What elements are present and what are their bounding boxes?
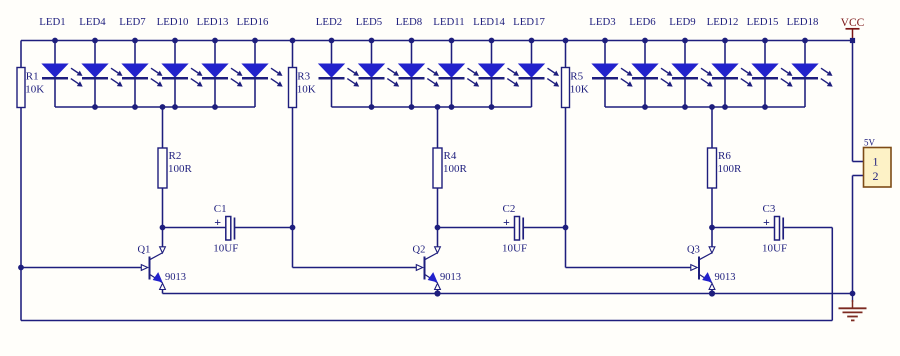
wire: R3 bottom to Q2 base xyxy=(293,107,417,268)
svg-text:Q2: Q2 xyxy=(413,245,426,256)
svg-text:10K: 10K xyxy=(25,84,44,96)
transistor Q2 9013 xyxy=(413,228,462,294)
svg-text:C2: C2 xyxy=(503,203,516,215)
svg-text:LED1: LED1 xyxy=(39,16,65,28)
LED7 xyxy=(119,16,162,110)
svg-text:C3: C3 xyxy=(763,203,776,215)
LED15 xyxy=(747,16,793,110)
capacitor C2 10UF xyxy=(438,203,569,255)
transistor Q3 9013 xyxy=(687,228,736,294)
svg-text:9013: 9013 xyxy=(715,272,736,283)
svg-text:LED18: LED18 xyxy=(787,16,819,28)
svg-text:5V: 5V xyxy=(864,138,876,148)
svg-text:+: + xyxy=(763,215,770,229)
LED17 xyxy=(513,16,559,107)
svg-text:LED14: LED14 xyxy=(473,16,505,28)
svg-text:R3: R3 xyxy=(297,71,310,83)
wire: LED group 2 cathode rail xyxy=(332,104,532,110)
wire: R1 bottom to Q1 base xyxy=(21,107,141,268)
svg-text:100R: 100R xyxy=(443,163,468,175)
wire: connector pin 2 to ground xyxy=(853,176,864,294)
svg-text:LED17: LED17 xyxy=(513,16,545,28)
LED18 xyxy=(787,16,833,107)
svg-text:LED2: LED2 xyxy=(316,16,342,28)
capacitor C3 10UF xyxy=(712,203,832,255)
connector JP 5V (pins 1,2) xyxy=(864,138,892,188)
svg-text:2: 2 xyxy=(873,169,879,183)
wire: LED group 3 cathode rail xyxy=(605,104,805,110)
svg-text:100R: 100R xyxy=(718,163,743,175)
svg-text:LED16: LED16 xyxy=(237,16,269,28)
LED4 xyxy=(79,16,122,110)
LED1 xyxy=(39,16,82,107)
svg-text:R1: R1 xyxy=(26,71,39,83)
svg-text:LED4: LED4 xyxy=(79,16,106,28)
resistor R2 100R xyxy=(158,107,193,228)
node: R4 / C2 / Q2 collector junction xyxy=(435,225,441,231)
svg-text:10UF: 10UF xyxy=(502,243,527,255)
LED8 xyxy=(396,16,439,110)
LED6 xyxy=(629,16,672,110)
svg-text:+: + xyxy=(503,215,510,229)
svg-text:R4: R4 xyxy=(444,150,457,162)
capacitor C1 10UF xyxy=(163,203,296,255)
svg-text:LED11: LED11 xyxy=(433,16,464,28)
svg-text:Q3: Q3 xyxy=(687,245,700,256)
svg-text:R5: R5 xyxy=(570,71,583,83)
LED16 xyxy=(237,16,283,107)
svg-text:LED15: LED15 xyxy=(747,16,779,28)
svg-text:1: 1 xyxy=(873,155,879,169)
LED14 xyxy=(473,16,519,110)
svg-text:10K: 10K xyxy=(297,84,316,96)
transistor Q1 9013 xyxy=(138,228,187,294)
resistor R5 10K xyxy=(562,38,589,108)
svg-text:R6: R6 xyxy=(718,150,731,162)
svg-text:9013: 9013 xyxy=(440,272,461,283)
svg-text:LED6: LED6 xyxy=(629,16,656,28)
LED11 xyxy=(433,16,479,110)
svg-text:9013: 9013 xyxy=(165,272,186,283)
LED9 xyxy=(669,16,712,110)
resistor R3 10K xyxy=(289,38,316,108)
svg-text:R2: R2 xyxy=(169,150,182,162)
ground symbol xyxy=(839,294,867,321)
svg-text:10UF: 10UF xyxy=(762,243,787,255)
svg-text:LED3: LED3 xyxy=(589,16,615,28)
svg-text:LED9: LED9 xyxy=(669,16,695,28)
svg-text:VCC: VCC xyxy=(841,17,865,29)
wire: VCC top rail xyxy=(21,40,853,42)
node: Q1 base / feedback junction xyxy=(18,265,24,271)
svg-text:LED7: LED7 xyxy=(119,16,146,28)
svg-text:+: + xyxy=(214,215,221,229)
wire: R5 bottom to Q3 base xyxy=(566,107,691,268)
wire: LED group 1 cathode rail xyxy=(55,104,255,110)
resistor R6 100R xyxy=(708,107,743,228)
svg-text:LED10: LED10 xyxy=(157,16,189,28)
LED12 xyxy=(707,16,753,110)
LED2 xyxy=(316,16,359,107)
svg-text:LED8: LED8 xyxy=(396,16,422,28)
node: R6 / C3 / Q3 collector junction xyxy=(709,225,715,231)
node: emitter / pin2 / ground junction xyxy=(850,291,856,297)
svg-text:10K: 10K xyxy=(570,84,589,96)
svg-text:Q1: Q1 xyxy=(138,245,151,256)
wire: emitter rail xyxy=(163,290,853,296)
LED10 xyxy=(157,16,203,110)
svg-text:100R: 100R xyxy=(168,163,193,175)
wire: C3 feedback bottom loop to Q1 base xyxy=(21,228,832,321)
LED3 xyxy=(589,16,632,107)
LED13 xyxy=(197,16,243,110)
power symbol VCC xyxy=(841,17,865,43)
resistor R1 10K xyxy=(17,41,44,108)
svg-text:10UF: 10UF xyxy=(213,243,238,255)
LED5 xyxy=(356,16,399,110)
wire: VCC to connector pin 1 xyxy=(853,41,864,162)
svg-text:LED12: LED12 xyxy=(707,16,739,28)
svg-text:C1: C1 xyxy=(214,203,227,215)
svg-text:LED5: LED5 xyxy=(356,16,382,28)
resistor R4 100R xyxy=(433,107,468,228)
svg-text:LED13: LED13 xyxy=(197,16,229,28)
node: R2 / C1 / Q1 collector junction xyxy=(160,225,166,231)
